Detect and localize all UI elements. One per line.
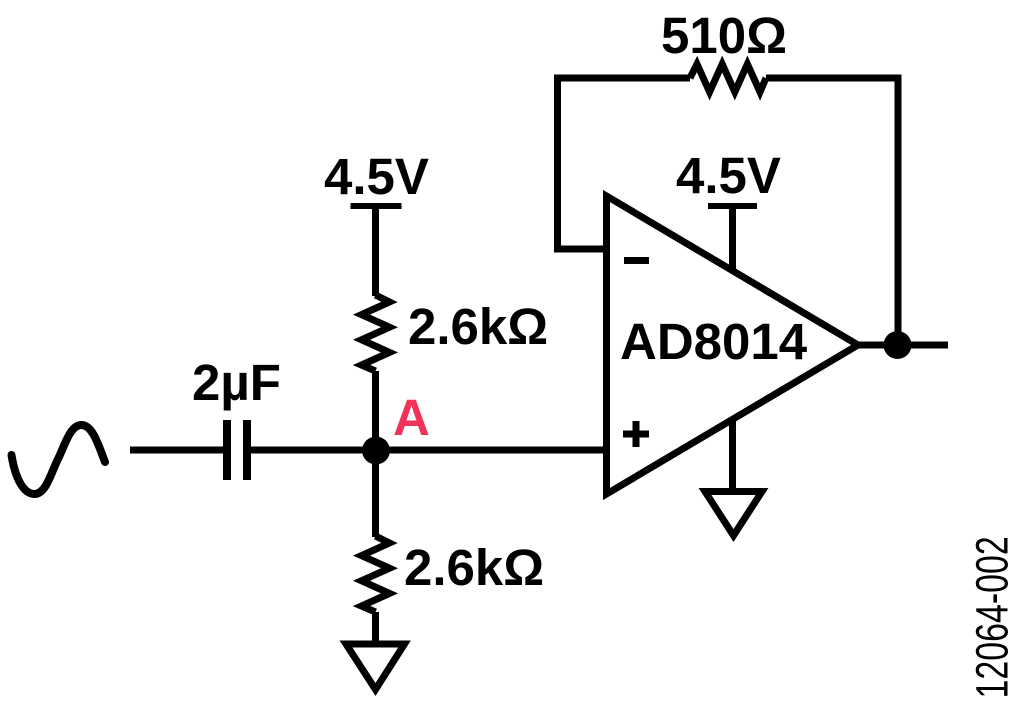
svg-text:2µF: 2µF: [192, 354, 281, 411]
op-amp inverting input marker −: [624, 257, 649, 264]
wire feedback: from − input up and across to R3: [558, 78, 691, 249]
wire capacitor to op-amp + input (through node A): [251, 447, 608, 454]
svg-text:12064-002: 12064-002: [968, 536, 1018, 698]
resistor R2 2.6k: [362, 536, 390, 612]
svg-text:2.6kΩ: 2.6kΩ: [404, 539, 544, 596]
resistor R3 510: [690, 64, 766, 92]
svg-text:4.5V: 4.5V: [324, 148, 429, 205]
ground (below R2): [346, 644, 405, 690]
op-amp noninverting input marker +: [623, 421, 649, 447]
resistor R1 2.6k: [362, 295, 390, 371]
wire R1 to node A: [372, 371, 379, 450]
wire R3 to output node (right, down): [766, 78, 898, 345]
op-amp U1 triangle: [607, 196, 859, 494]
wire supply bar to R1: [372, 206, 379, 296]
svg-text:A: A: [393, 389, 430, 446]
wire op-amp bottom edge to ground: [729, 419, 736, 492]
svg-text:AD8014: AD8014: [620, 313, 808, 370]
output node junction dot: [884, 331, 912, 359]
node A junction dot: [362, 437, 390, 465]
svg-text:4.5V: 4.5V: [676, 147, 781, 204]
power 4.5V left (supply bar): [351, 203, 402, 209]
wire op-amp output to stub end: [858, 342, 948, 349]
ground (below op-amp): [705, 492, 762, 536]
wire node A to R2: [372, 450, 379, 537]
wire supply bar into op-amp top edge: [729, 206, 736, 272]
signal source V1 (sine symbol): [12, 425, 106, 494]
wire R2 to ground: [372, 612, 379, 644]
svg-text:2.6kΩ: 2.6kΩ: [408, 298, 548, 355]
svg-text:510Ω: 510Ω: [661, 7, 787, 64]
wire input to capacitor: [130, 447, 223, 454]
capacitor C1: [223, 420, 251, 480]
power 4.5V right (supply bar): [708, 203, 757, 209]
